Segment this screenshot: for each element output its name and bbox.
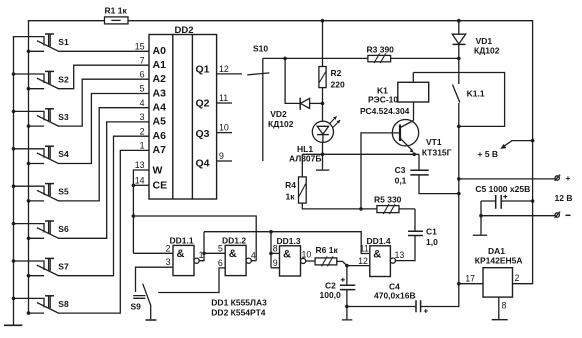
svg-text:&: & xyxy=(229,248,237,260)
wire DD1.2 output to riser xyxy=(251,260,256,262)
wire S5 output to DD2 pin xyxy=(59,108,150,201)
capacitor C3 xyxy=(395,154,459,193)
transistor VT1 xyxy=(392,102,451,158)
svg-text:S10: S10 xyxy=(253,44,268,54)
svg-text:&: & xyxy=(177,248,185,260)
svg-text:C3: C3 xyxy=(395,165,406,175)
junction C2 tap at pin 12 xyxy=(345,264,349,268)
wire DD2 pin 13 (W) to vertical xyxy=(133,170,149,253)
svg-text:9: 9 xyxy=(273,258,278,268)
svg-text:R6 1к: R6 1к xyxy=(316,245,339,255)
wire VT1 base riser xyxy=(361,133,399,209)
svg-text:A7: A7 xyxy=(153,144,167,156)
junction K1 loop node xyxy=(457,125,461,129)
svg-text:1: 1 xyxy=(140,141,145,151)
svg-text:2: 2 xyxy=(166,243,171,253)
svg-text:S4: S4 xyxy=(58,149,69,159)
svg-text:W: W xyxy=(153,165,163,177)
svg-text:S6: S6 xyxy=(58,224,69,234)
svg-text:11: 11 xyxy=(219,93,228,103)
LED HL1 xyxy=(289,103,340,169)
svg-text:АЛ307Б: АЛ307Б xyxy=(289,154,322,164)
svg-text:DD1.3: DD1.3 xyxy=(277,236,301,246)
svg-text:S1: S1 xyxy=(58,37,69,47)
wire DD2 pin 12 (Q1) stub xyxy=(217,73,242,75)
junction DA1 pin 17 xyxy=(457,282,461,286)
svg-text:R3 390: R3 390 xyxy=(367,44,395,54)
capacitor C4 xyxy=(347,281,459,313)
svg-text:0,1: 0,1 xyxy=(395,175,407,185)
junction C3 to main vertical xyxy=(457,192,461,196)
svg-text:Q1: Q1 xyxy=(196,64,210,76)
arrow +5V tap xyxy=(478,141,533,159)
svg-text:13: 13 xyxy=(135,160,145,170)
svg-text:+: + xyxy=(566,173,571,183)
ground HL1/emitter xyxy=(316,169,329,171)
diode VD1 xyxy=(452,21,499,59)
svg-text:4: 4 xyxy=(140,98,145,108)
junction C5 right xyxy=(531,199,535,203)
svg-text:Q2: Q2 xyxy=(196,98,210,110)
wire S8 output to DD2 pin xyxy=(59,150,150,313)
svg-text:6: 6 xyxy=(140,69,145,79)
switch S8 xyxy=(12,296,69,315)
svg-text:12 В: 12 В xyxy=(555,193,573,203)
svg-text:15: 15 xyxy=(135,42,145,52)
svg-text:КД102: КД102 xyxy=(268,119,294,129)
svg-text:13: 13 xyxy=(395,250,405,260)
terminal +12V xyxy=(555,173,571,183)
svg-text:10: 10 xyxy=(302,250,312,260)
wire -12V input line xyxy=(481,215,555,217)
svg-text:5: 5 xyxy=(140,84,145,94)
svg-text:K1.1: K1.1 xyxy=(467,88,485,98)
svg-text:A2: A2 xyxy=(153,73,167,85)
svg-text:8: 8 xyxy=(502,300,507,310)
svg-text:Q3: Q3 xyxy=(196,128,210,140)
svg-text:11: 11 xyxy=(360,244,369,254)
svg-text:VD1: VD1 xyxy=(476,36,493,46)
gate DD1.2 xyxy=(218,236,256,276)
switch S3 xyxy=(12,109,69,128)
svg-text:8: 8 xyxy=(273,243,278,253)
junction VD2 tap xyxy=(283,57,287,61)
svg-text:A0: A0 xyxy=(153,45,167,57)
svg-text:R1 1к: R1 1к xyxy=(105,6,128,16)
switch S5 xyxy=(12,184,69,203)
ground C2/C4 node xyxy=(342,307,352,320)
wire K1 coil loop to contact xyxy=(413,73,504,127)
switch S10 xyxy=(247,44,269,162)
svg-text:S7: S7 xyxy=(58,261,69,271)
svg-text:R4: R4 xyxy=(285,180,296,190)
svg-text:5: 5 xyxy=(218,243,223,253)
junction C2/C4/ground xyxy=(345,305,349,309)
wire DA1 pin 17 xyxy=(459,283,483,285)
svg-text:РЭС-10: РЭС-10 xyxy=(368,94,398,104)
gate DD1.3 xyxy=(273,236,312,276)
svg-text:9: 9 xyxy=(219,151,224,161)
wire S10 node line to VD1 node xyxy=(263,57,459,59)
wire DA1 pin 8 to ground xyxy=(498,297,500,319)
svg-text:C5 1000 х25В: C5 1000 х25В xyxy=(475,184,530,194)
resistor R4 xyxy=(285,154,361,209)
svg-text:4: 4 xyxy=(251,250,256,260)
svg-text:S2: S2 xyxy=(58,74,69,84)
svg-text:DD1.2: DD1.2 xyxy=(222,236,246,246)
wire DD2 pin 14 (CE) stub xyxy=(133,184,149,186)
svg-text:3: 3 xyxy=(140,112,145,122)
wire S1 output to DD2 pin xyxy=(59,50,150,52)
wire DD2 pin 10 (Q3) stub xyxy=(217,132,232,134)
svg-text:10: 10 xyxy=(219,123,229,133)
switch S6 xyxy=(12,221,69,240)
svg-text:A3: A3 xyxy=(153,87,167,99)
wire outer left rail xyxy=(13,37,15,326)
wire right vertical +5V rail xyxy=(513,21,533,284)
resistor R2 xyxy=(319,21,345,104)
gate DD1.4 xyxy=(358,236,404,277)
wire DD1.1 pin 3 to S9 xyxy=(136,267,174,292)
junction +5V tap xyxy=(531,139,535,143)
svg-text:DD2: DD2 xyxy=(175,25,194,36)
wire inner left rail xyxy=(28,21,30,314)
svg-text:14: 14 xyxy=(135,176,145,186)
svg-text:3: 3 xyxy=(166,257,171,267)
junction +12V at main vertical xyxy=(457,177,461,181)
svg-text:17: 17 xyxy=(465,273,475,283)
svg-text:2: 2 xyxy=(140,126,145,136)
svg-text:C1: C1 xyxy=(426,227,437,237)
resistor R3 xyxy=(367,44,395,63)
svg-text:12: 12 xyxy=(219,64,229,74)
resistor R1 xyxy=(105,6,129,24)
svg-text:&: & xyxy=(373,248,381,260)
svg-text:A4: A4 xyxy=(153,102,167,114)
svg-text:7: 7 xyxy=(140,55,145,65)
junction VD2/R2/HL1 xyxy=(321,102,325,106)
svg-text:S3: S3 xyxy=(58,112,69,122)
wire DD1.1 output to DD1.2 pin 5 xyxy=(204,252,225,254)
svg-text:470,0х16В: 470,0х16В xyxy=(374,291,416,301)
switch S9 xyxy=(131,284,151,320)
terminal -12V xyxy=(555,212,571,218)
junction DD1.3 input tap xyxy=(269,230,273,234)
svg-text:1,0: 1,0 xyxy=(426,237,438,247)
svg-text:S8: S8 xyxy=(58,299,69,309)
junction W/CE tie xyxy=(132,184,136,188)
svg-text:DA1: DA1 xyxy=(488,246,505,256)
resistor R6 xyxy=(306,245,339,267)
junction R4/R5/base riser xyxy=(359,207,363,211)
wire DD1.3 tied inputs from DD1.1 output line xyxy=(271,232,280,268)
wire emitter/ground line xyxy=(302,153,419,155)
junction VD1/R3 node xyxy=(457,57,461,61)
svg-text:100,0: 100,0 xyxy=(320,290,342,300)
svg-text:КТ315Г: КТ315Г xyxy=(422,148,452,158)
svg-text:1: 1 xyxy=(199,250,204,260)
svg-text:CE: CE xyxy=(153,180,168,192)
svg-text:&: & xyxy=(283,248,291,260)
svg-text:A6: A6 xyxy=(153,130,167,142)
svg-text:Q4: Q4 xyxy=(196,158,210,170)
junction DD1.3 pin 8 xyxy=(269,252,273,256)
IC DD2 K554RT4 xyxy=(135,25,229,199)
capacitor C5 xyxy=(475,184,532,234)
junction HL1 ground crossing xyxy=(321,153,325,157)
svg-text:C2: C2 xyxy=(325,280,336,290)
wire R6 to DD1.4 pin 12 xyxy=(337,261,370,265)
svg-text:A1: A1 xyxy=(153,59,167,71)
wire S2 output to DD2 pin xyxy=(59,65,150,89)
svg-text:220: 220 xyxy=(331,80,345,90)
switch S2 xyxy=(12,71,69,90)
capacitor C2 xyxy=(320,266,356,307)
svg-text:DD2 К554РТ4: DD2 К554РТ4 xyxy=(211,307,265,317)
switch S4 xyxy=(12,146,69,165)
wire DD2 pin 9 (Q4) stub xyxy=(217,160,232,162)
switch S7 xyxy=(12,258,69,277)
junction emitter node xyxy=(412,153,416,157)
svg-text:1к: 1к xyxy=(286,192,296,202)
ground DA1 xyxy=(492,319,508,321)
ground outer rail xyxy=(5,324,22,326)
svg-text:S9: S9 xyxy=(131,302,142,312)
svg-text:12: 12 xyxy=(358,256,368,266)
gate DD1.1 xyxy=(166,236,204,276)
wire S7 output to DD2 pin xyxy=(59,136,150,276)
contact K1.1 xyxy=(453,58,485,283)
junction CE line to DD1.2 output line xyxy=(132,214,136,218)
svg-text:R5 330: R5 330 xyxy=(374,195,402,205)
junction DD1.2 pin 5 tap xyxy=(202,252,206,256)
relay coil K1 xyxy=(360,73,429,117)
diode VD2 xyxy=(268,58,323,128)
regulator DA1 xyxy=(475,246,523,297)
wire DD2 pin 11 (Q2) stub xyxy=(217,102,232,104)
wire DD1.1 output riser xyxy=(199,232,204,261)
ground C5 xyxy=(473,234,487,236)
svg-text:S5: S5 xyxy=(58,187,69,197)
wire DD1.1 output line to DD1.4 pin 11 xyxy=(204,232,370,254)
switch S1 xyxy=(14,34,69,53)
svg-text:РС4.524.304: РС4.524.304 xyxy=(360,106,410,116)
wire CE node to DD1.2 output riser xyxy=(133,216,256,261)
svg-text:DD1.1: DD1.1 xyxy=(170,236,194,246)
wire DD1.4 output to C1 xyxy=(396,236,416,261)
junction R2 top at bus xyxy=(321,19,325,23)
svg-text:DD1.4: DD1.4 xyxy=(367,236,391,246)
svg-text:+ 5 В: + 5 В xyxy=(478,149,499,159)
wire top supply bus xyxy=(29,20,533,22)
svg-text:6: 6 xyxy=(218,258,223,268)
ground S9 xyxy=(146,319,157,321)
wire S6 output to DD2 pin xyxy=(59,122,150,238)
svg-text:R2: R2 xyxy=(331,68,342,78)
svg-text:VT1: VT1 xyxy=(426,137,442,147)
wire S4 output to DD2 pin xyxy=(59,94,150,164)
svg-text:A5: A5 xyxy=(153,116,167,128)
resistor R5 xyxy=(361,195,415,215)
svg-text:КР142ЕН5А: КР142ЕН5А xyxy=(475,256,523,266)
svg-text:КД102: КД102 xyxy=(474,46,500,56)
junction VD1 top at bus xyxy=(457,19,461,23)
svg-text:2: 2 xyxy=(515,273,520,283)
wire S3 output to DD2 pin xyxy=(59,79,150,126)
junction C5 left on -12V line xyxy=(479,214,483,218)
wire DD1.2 pin 6 to S9 lower contact xyxy=(158,268,225,293)
capacitor C1 xyxy=(408,209,438,247)
svg-text:HL1: HL1 xyxy=(297,144,313,154)
wire DD2-CE node to DD1.1 pin 2 xyxy=(133,252,173,254)
svg-text:VD2: VD2 xyxy=(270,109,287,119)
svg-text:DD1 К555ЛА3: DD1 К555ЛА3 xyxy=(211,298,267,308)
wire +12V input line xyxy=(459,178,555,180)
